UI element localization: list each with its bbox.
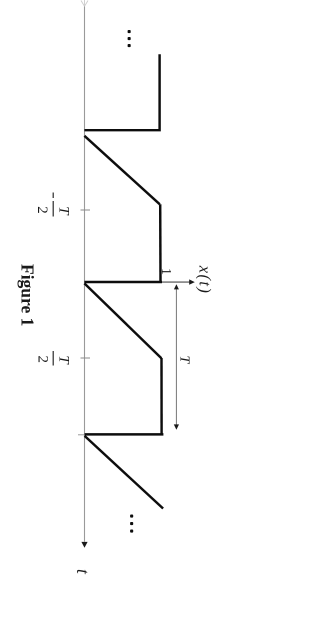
- svg-text:T: T: [176, 356, 191, 365]
- x(t) axis line: [85, 281, 191, 283]
- svg-text:x(t): x(t): [196, 265, 215, 295]
- waveform: drop edge at t=T: [85, 433, 164, 435]
- x(t) axis arrowhead: [189, 279, 195, 284]
- t axis right arrowhead: [81, 542, 87, 548]
- svg-text:2: 2: [34, 206, 50, 214]
- waveform: flat top of previous period (cut off) and drop at -T: [84, 54, 159, 130]
- period marker right arrowhead: [174, 424, 179, 429]
- continuation dots right: [130, 515, 133, 518]
- tick -T/2: [81, 209, 91, 211]
- waveform: rising ramp 0 to T/2: [84, 283, 161, 358]
- tick T/2: [81, 357, 91, 359]
- svg-text:2: 2: [34, 356, 50, 364]
- waveform: rising ramp -T to -T/2: [84, 136, 159, 205]
- period marker double arrow line: [175, 289, 177, 425]
- tick T (under drop edge): [78, 434, 90, 436]
- svg-text:Figure 1: Figure 1: [17, 264, 37, 326]
- waveform: flat top -T/2 to 0: [159, 204, 162, 281]
- continuation dots left: [128, 30, 131, 33]
- waveform: flat top T/2 to T: [160, 358, 163, 434]
- label -T/2 : fraction bar: [52, 201, 54, 217]
- figure drawn in landscape coords (619x234), rotated 90deg CW into portrait: [17, 0, 214, 575]
- period marker left arrowhead: [174, 284, 179, 289]
- label -T/2 : minus sign: [52, 193, 54, 199]
- waveform: drop edge at t=0: [84, 281, 162, 283]
- label T/2 : fraction bar: [52, 351, 54, 366]
- waveform: rising ramp after T (cut off): [85, 436, 164, 509]
- t axis cropped left arrowhead: [81, 0, 88, 7]
- t axis line: [84, 7, 86, 542]
